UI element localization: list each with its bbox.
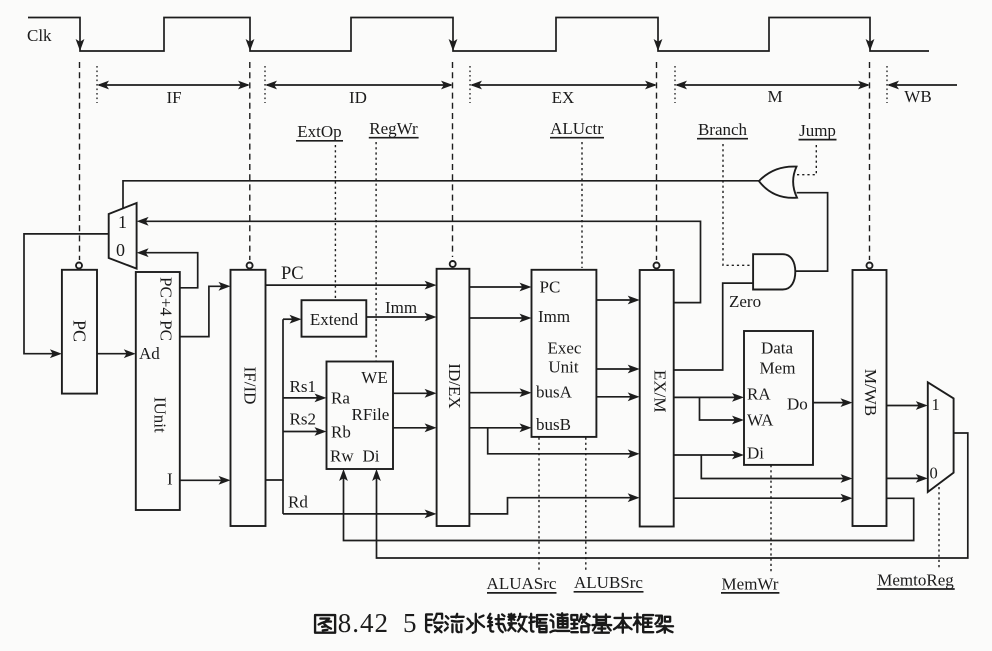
wire PC+4 from IUnit to mux input 0 — [137, 248, 198, 287]
svg-text:Clk: Clk — [27, 26, 52, 45]
clock circle on ID/EX — [450, 261, 456, 267]
svg-text:ALUASrc: ALUASrc — [487, 574, 557, 593]
control dotted line RegWr to RFile WE — [375, 142, 377, 361]
svg-text:PC: PC — [70, 320, 90, 342]
control signal label ALUBSrc — [574, 573, 644, 592]
wire instruction bus lower segment — [282, 480, 284, 514]
stage span arrow EX — [470, 81, 657, 90]
control signal label Branch — [697, 120, 748, 139]
pipeline register M/WB — [853, 270, 887, 526]
svg-text:MemWr: MemWr — [722, 575, 779, 594]
svg-text:0: 0 — [116, 240, 125, 260]
wire ID/EX busB to Exec — [469, 423, 531, 432]
caption character xian — [488, 614, 506, 632]
control dotted line ALUctr to Exec Unit — [581, 142, 583, 268]
clock falling-edge arrow 2 — [246, 39, 255, 51]
svg-text:5: 5 — [403, 608, 417, 638]
wire Rs2 to RFile Rb — [283, 427, 327, 436]
stage span arrow WB — [887, 81, 957, 90]
control dotted line MemWr — [770, 465, 772, 573]
svg-text:IUnit: IUnit — [151, 397, 170, 433]
dotted stage start line M — [674, 66, 676, 103]
svg-text:Rb: Rb — [331, 423, 351, 442]
svg-text:Imm: Imm — [385, 298, 417, 317]
wire IF/ID PC to ID/EX — [266, 281, 437, 290]
wire ID/EX busA to Exec — [469, 388, 531, 397]
wire IUnit I to IF/ID — [180, 476, 231, 485]
svg-text:ALUctr: ALUctr — [550, 119, 603, 138]
mux M1 (next-PC select) — [109, 203, 137, 269]
clock falling-edge arrow 3 — [449, 39, 458, 51]
caption character ju — [529, 614, 547, 632]
control dotted line MemtoReg — [938, 487, 940, 568]
wire Exec zero to EX/M — [596, 365, 639, 374]
svg-text:busB: busB — [536, 415, 571, 434]
control signal label ALUASrc — [487, 574, 557, 593]
wire EX/M Rd to M/WB — [674, 494, 853, 503]
and-gate G2 (branch AND zero) — [753, 254, 795, 289]
control dotted line Branch to AND gate — [723, 144, 753, 265]
caption character liu — [445, 614, 464, 632]
pipeline register EX/M — [640, 270, 674, 527]
svg-text:busA: busA — [536, 383, 573, 402]
dashed clock boundary line x=453 — [452, 62, 454, 257]
clock circle on EX/M — [654, 263, 660, 269]
dotted stage start line IF — [96, 66, 98, 103]
wire EX/M to Data Mem RA — [674, 393, 744, 402]
control signal label ALUctr — [550, 119, 604, 138]
svg-text:MemtoReg: MemtoReg — [877, 571, 954, 590]
wire M/WB to mux M2 input 0 — [887, 474, 928, 483]
svg-text:RA: RA — [747, 385, 771, 404]
caption character ben — [614, 614, 632, 633]
mux M2 (mem-to-reg select) — [928, 382, 954, 492]
dashed clock boundary line x=870 — [869, 62, 871, 260]
svg-text:1: 1 — [118, 212, 127, 232]
stage span arrow ID — [265, 81, 453, 90]
dotted stage start line ID — [264, 66, 266, 103]
svg-text:PC+4 PC: PC+4 PC — [156, 277, 175, 341]
wire mux select from OR gate output — [123, 181, 759, 208]
caption character lu — [571, 614, 589, 632]
data memory box — [744, 331, 813, 465]
wire clock waveform — [28, 18, 929, 52]
svg-text:IF/ID: IF/ID — [241, 367, 260, 405]
svg-text:Rs1: Rs1 — [290, 377, 316, 396]
wire ID/EX Rd to EX/M — [469, 493, 639, 514]
clock falling-edge arrow 5 — [866, 39, 875, 51]
wire mux M2 output Di writeback to RFile — [372, 433, 968, 558]
control signal label RegWr — [369, 119, 419, 138]
dashed clock boundary line x=80 — [79, 62, 81, 260]
dotted stage start line EX — [469, 66, 471, 103]
clock falling-edge arrow 4 — [654, 39, 663, 51]
caption character shu — [508, 614, 526, 632]
clock circle on IF/ID — [247, 263, 253, 269]
svg-text:WA: WA — [747, 411, 774, 430]
svg-text:Jump: Jump — [799, 121, 836, 140]
stage span arrow IF — [97, 81, 250, 90]
wire mux output to PC input — [24, 234, 109, 358]
svg-text:ExtOp: ExtOp — [297, 122, 341, 141]
svg-text:Data: Data — [761, 339, 794, 358]
wire M/WB to mux M2 input 1 — [887, 401, 928, 410]
register file RFile — [327, 362, 394, 470]
control dotted line ALUASrc — [538, 438, 540, 572]
control signal label Jump — [799, 121, 837, 140]
control dotted line ALUBSrc — [585, 438, 587, 571]
svg-text:M/WB: M/WB — [861, 369, 880, 416]
wire Data Mem Do to M/WB — [813, 398, 853, 407]
caption character ji — [592, 614, 611, 632]
svg-text:Ra: Ra — [331, 389, 350, 408]
svg-text:Rw: Rw — [330, 447, 354, 466]
svg-text:Extend: Extend — [310, 310, 359, 329]
svg-text:RegWr: RegWr — [369, 119, 418, 138]
svg-text:M: M — [767, 87, 782, 106]
control signal label ExtOp — [296, 122, 343, 141]
svg-text:8.42: 8.42 — [338, 608, 389, 638]
caption character kuang — [634, 614, 653, 632]
wire Extend Imm to ID/EX — [366, 313, 436, 322]
svg-text:RFile: RFile — [352, 405, 390, 424]
wire Rd to ID/EX — [283, 510, 437, 519]
wire Exec ALU result to EX/M — [596, 392, 639, 401]
svg-text:EX/M: EX/M — [650, 370, 669, 413]
wire AND output to OR input — [795, 193, 827, 271]
wire busB bypass to EX/M — [488, 428, 640, 458]
control dotted line ExtOp to Extend — [334, 145, 336, 300]
clock circle on PC — [76, 263, 82, 269]
clock falling-edge arrow 1 — [76, 39, 85, 51]
svg-text:Di: Di — [747, 444, 764, 463]
svg-text:Branch: Branch — [698, 120, 748, 139]
wire Exec branch target to EX/M — [596, 296, 639, 305]
wire IF/ID instruction distribution bus — [266, 319, 284, 480]
svg-text:Mem: Mem — [760, 359, 796, 378]
svg-text:WE: WE — [361, 368, 387, 387]
caption character tong — [550, 613, 569, 632]
wire EX/M Zero to AND gate — [674, 283, 753, 370]
stage span arrow M — [675, 81, 870, 90]
execution unit box — [532, 270, 597, 437]
wire EX/M busB to Data Mem Di — [674, 451, 744, 460]
svg-text:ALUBSrc: ALUBSrc — [574, 573, 643, 592]
svg-text:0: 0 — [930, 464, 938, 483]
svg-text:Unit: Unit — [548, 358, 579, 377]
dotted stage start line WB — [886, 66, 888, 103]
svg-text:IF: IF — [166, 88, 181, 107]
svg-text:Ad: Ad — [139, 344, 160, 363]
control dotted line Jump to OR gate — [794, 145, 817, 175]
svg-text:ID: ID — [349, 88, 367, 107]
caption character jia — [655, 616, 673, 633]
svg-text:EX: EX — [552, 88, 575, 107]
svg-text:ID/EX: ID/EX — [445, 363, 464, 408]
control signal label MemWr — [721, 575, 779, 594]
or-gate G1 (jump/branch select, output faces left) — [759, 167, 797, 198]
svg-text:PC: PC — [540, 278, 561, 297]
wire busB bypass to M/WB — [701, 455, 852, 483]
svg-text:Rs2: Rs2 — [290, 410, 316, 429]
pipeline register ID/EX — [437, 269, 470, 526]
instruction unit IUnit — [136, 272, 180, 510]
svg-text:Do: Do — [787, 395, 808, 414]
wire branch target EX/M to mux input 1 — [137, 217, 701, 303]
wire ID/EX PC to Exec — [469, 283, 531, 292]
svg-text:I: I — [167, 470, 173, 489]
wire PC to IUnit Ad — [97, 349, 136, 358]
dashed clock boundary line x=250 — [249, 62, 251, 260]
svg-text:1: 1 — [932, 395, 940, 414]
wire branch to Data Mem WA — [700, 397, 745, 424]
clock circle on M/WB — [867, 263, 873, 269]
wire M/WB Rw writeback to RFile — [339, 469, 914, 541]
sign extender Extend — [302, 300, 367, 337]
svg-text:Exec: Exec — [548, 339, 582, 358]
svg-text:WB: WB — [904, 87, 931, 106]
wire ID/EX Imm to Exec — [469, 314, 531, 323]
register PC — [62, 270, 97, 394]
caption character duan — [426, 614, 443, 632]
wire to Extend input — [283, 315, 302, 324]
wire RFile busA to ID/EX — [393, 389, 437, 398]
wire IUnit PC to IF/ID — [180, 282, 231, 337]
svg-text:Rd: Rd — [288, 493, 308, 512]
svg-text:Zero: Zero — [729, 292, 761, 311]
caption character tu (figure) — [315, 615, 335, 633]
svg-text:Di: Di — [363, 447, 380, 466]
wire RFile busB to ID/EX — [393, 423, 437, 432]
caption character shui — [467, 614, 484, 633]
pipeline register IF/ID — [231, 270, 266, 526]
wire Rs1 to RFile Ra — [283, 394, 327, 403]
control signal label MemtoReg — [877, 571, 955, 590]
svg-text:Imm: Imm — [538, 307, 570, 326]
svg-text:PC: PC — [281, 264, 304, 284]
dashed clock boundary line x=657 — [656, 62, 658, 260]
